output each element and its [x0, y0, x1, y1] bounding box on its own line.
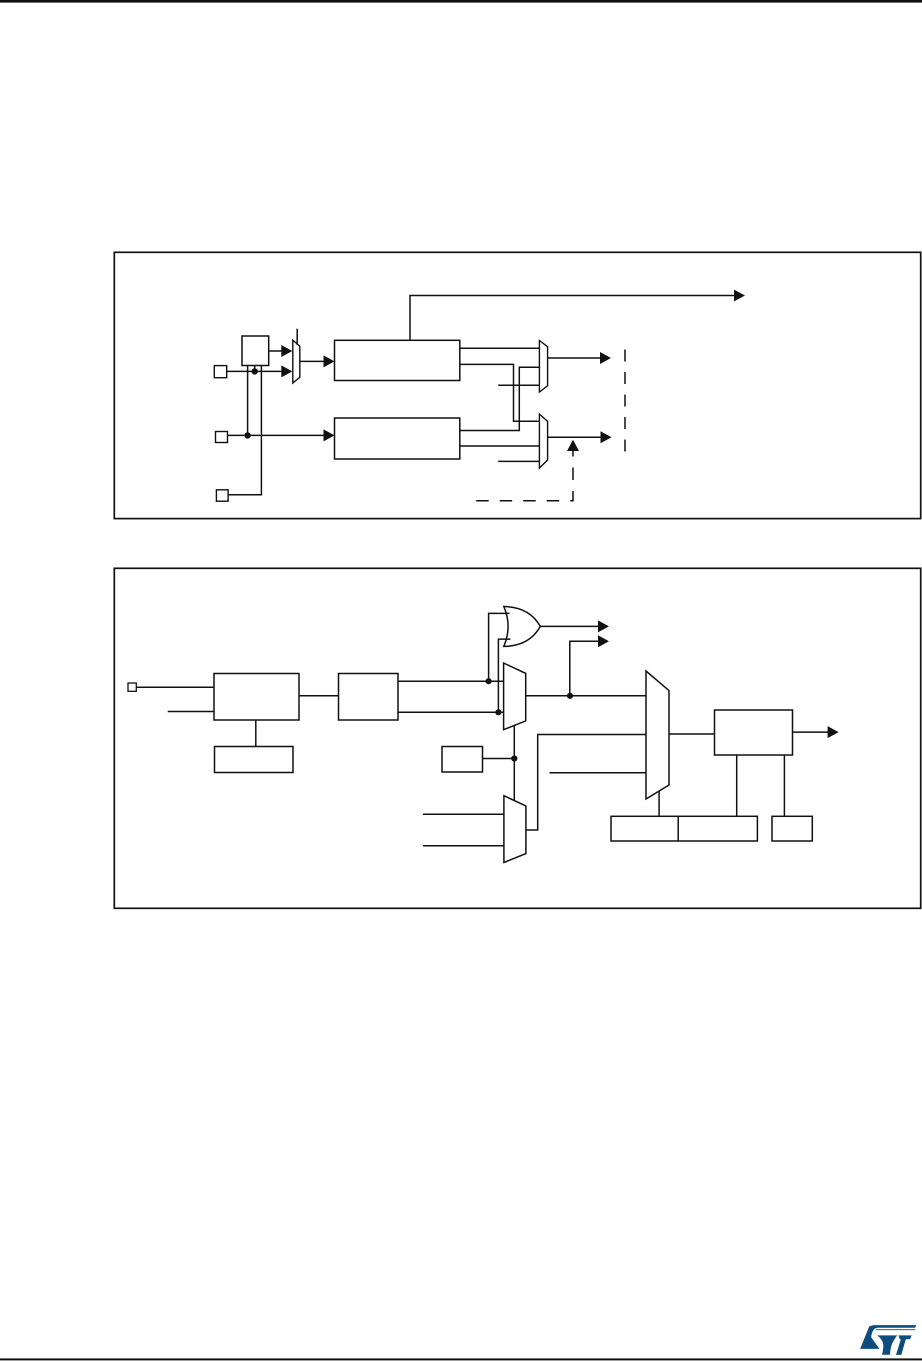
wire: mux C input 2	[423, 845, 504, 847]
arrowhead prescaler to mux	[281, 345, 292, 357]
wire: select vertical muxA to muxC	[513, 725, 515, 801]
pin EXTCLK	[216, 490, 228, 501]
OR gate	[504, 607, 541, 647]
wire: to OR input 1	[489, 613, 510, 681]
counter 1 box	[335, 340, 460, 380]
wire: OR output arrow	[540, 625, 599, 627]
wire: mux A output to mux B	[526, 695, 646, 697]
wire: counter1 out2 to mux R2	[460, 364, 540, 421]
mux C	[504, 796, 526, 863]
register divider	[677, 816, 679, 841]
wire: vertical box bottom to EXTCLK line	[228, 366, 261, 495]
wire: stub D to register F2	[736, 755, 738, 816]
wire: mux B output to block D	[669, 733, 715, 735]
select wire mux R1	[498, 384, 539, 386]
arrowhead mux R2 output	[601, 431, 612, 443]
arrowhead top output	[734, 290, 745, 302]
junction dot select	[511, 755, 517, 761]
wire: B out1 to mux A	[398, 680, 504, 682]
mux input select (left)	[293, 340, 300, 383]
arrowhead mux R1 output	[600, 352, 611, 364]
wire: pin to block A	[136, 686, 214, 688]
small block (prescaler)	[442, 747, 483, 773]
figure 1 frame	[114, 252, 920, 518]
dashed select feedback path	[476, 450, 573, 501]
wire: mux R2 output	[548, 436, 602, 438]
counter 2 box	[335, 418, 460, 459]
mux A	[504, 663, 526, 730]
wire: counter overflow to top arrow	[410, 296, 743, 341]
wire: left mux output to counter 1	[300, 360, 325, 362]
junction dot on MCO wire	[252, 368, 258, 374]
block A	[214, 674, 299, 721]
ST logo	[860, 1325, 916, 1355]
register pair F	[611, 816, 757, 841]
arrowhead block D output	[828, 726, 839, 738]
dashed boundary vertical	[624, 350, 626, 461]
wire: stub box bottom to dot	[254, 366, 256, 372]
wire: mux R1 output	[548, 357, 601, 359]
mux B	[646, 671, 669, 799]
top rule bar	[0, 0, 922, 3]
wire: counter1 out1 to mux R1	[460, 347, 540, 349]
wire: block A to block B	[299, 695, 339, 697]
register E	[772, 816, 812, 841]
junction dot mux A output	[567, 693, 573, 699]
wire: mux A output branch arrow	[570, 641, 599, 696]
mux R1	[539, 341, 547, 393]
wire: small block to select line	[483, 758, 515, 760]
block B	[339, 674, 399, 721]
wire: dangling input to block A	[168, 711, 214, 713]
wire: stub mux B to register F1	[658, 791, 660, 816]
wire: counter2 out1 to mux R1	[460, 367, 540, 430]
pin MCO	[214, 366, 226, 378]
wire: mux C output to mux B	[526, 735, 646, 831]
wire: pin ICAP1 to counter 2	[228, 434, 326, 436]
wire: pin MCO to mux	[227, 370, 283, 372]
junction dot B out1	[486, 678, 492, 684]
wire: B out2 to mux A	[398, 711, 504, 713]
arrowhead into counter 2	[324, 429, 335, 441]
junction dot B out2	[495, 709, 501, 715]
wire: stub A to C	[255, 720, 257, 747]
wire: block D output arrow	[793, 731, 829, 733]
wire: vertical box bottom to ICAP1 line	[247, 366, 249, 436]
junction dot on ICAP1 wire	[244, 432, 250, 438]
pin ICAP1	[216, 432, 228, 443]
prescaler box	[242, 336, 269, 366]
block D	[715, 710, 793, 755]
wire: dangling input to mux B	[550, 772, 647, 774]
mux R2	[539, 414, 547, 468]
arrowhead branch	[598, 635, 609, 647]
figure 2 frame	[114, 568, 920, 908]
wire: mux C input 1	[423, 813, 504, 815]
arrowhead dashed up	[567, 440, 579, 451]
arrowhead pin to mux	[281, 365, 292, 377]
pin input square	[128, 683, 136, 691]
bottom rule line	[0, 1358, 922, 1360]
arrowhead into counter 1	[324, 355, 335, 367]
select wire mux R2	[498, 460, 539, 462]
arrowhead OR output	[598, 620, 609, 632]
wire: stub D to register E	[783, 755, 785, 816]
wire: counter2 out2 to mux R2	[460, 445, 540, 447]
select tick on left mux	[296, 329, 298, 345]
block C below A	[215, 747, 294, 773]
wire: to OR input 2	[498, 639, 510, 712]
wire: prescaler output to mux	[269, 350, 283, 352]
